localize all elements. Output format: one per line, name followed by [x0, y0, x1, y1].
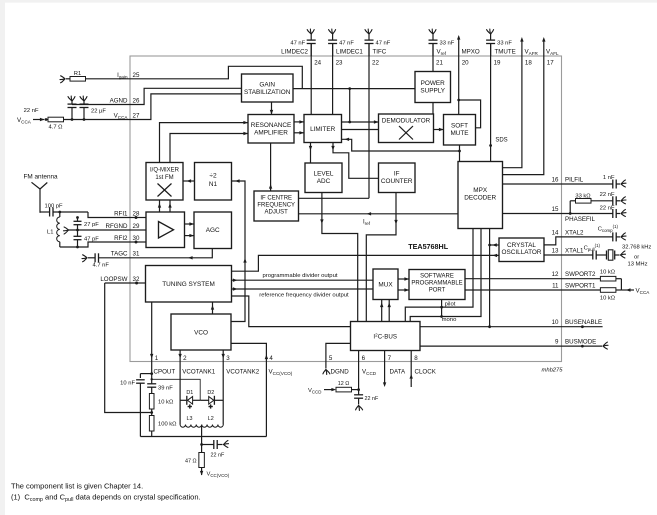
pin 23 LIMDEC1 label — [336, 49, 364, 67]
svg-text:9: 9 — [555, 339, 559, 346]
wire MPXO pin20 net — [457, 37, 460, 115]
svg-text:VCO: VCO — [194, 330, 208, 337]
svg-text:TUNING SYSTEM: TUNING SYSTEM — [162, 281, 215, 288]
resistor 12 Ohm VCCD — [336, 381, 359, 392]
block AGC — [194, 212, 232, 249]
wire tuning system to CPOUT pin1 — [150, 302, 153, 362]
wire crystal oscillator XTAL1 to pin13 — [544, 254, 562, 256]
svg-text:PILFIL: PILFIL — [565, 177, 584, 184]
svg-text:AGC: AGC — [206, 227, 220, 234]
svg-text:47 Ω: 47 Ω — [185, 459, 197, 465]
wire pin24 LIMDEC2 to LIMITER — [310, 44, 312, 115]
pin 9 BUSMODE label — [555, 339, 596, 346]
wire Igain pin25 over gain stabilization to output net — [86, 66, 303, 88]
svg-text:20: 20 — [462, 60, 469, 67]
svg-text:32.768 kHz: 32.768 kHz — [622, 245, 651, 251]
label reference frequency divider output — [259, 293, 349, 299]
wire tuning system to I2C bus — [232, 296, 351, 327]
svg-text:XTAL2: XTAL2 — [565, 229, 584, 236]
resistor 47 Ohm tank — [185, 453, 204, 468]
svg-text:FM antenna: FM antenna — [24, 174, 59, 181]
svg-text:10 kΩ: 10 kΩ — [158, 400, 174, 406]
capacitor 10nF CPOUT — [120, 374, 152, 387]
wire pin29 RFGND into RF amplifier — [130, 229, 146, 231]
wire RFGND — [69, 229, 131, 232]
svg-text:16: 16 — [552, 177, 559, 184]
wire software port to SWPORT1 pin11 — [465, 289, 562, 291]
wire I2C bus to DATA pin7 — [384, 351, 386, 362]
svg-text:SOFT: SOFT — [451, 123, 468, 130]
resistor 4.7 Ohm — [45, 117, 131, 130]
pin 16 PILFIL label — [552, 177, 584, 184]
block VCO — [171, 314, 231, 350]
wire MPX decoder to PHASEFIL pin15 — [503, 213, 562, 215]
svg-text:SDS: SDS — [495, 138, 507, 144]
block DEMODULATOR — [379, 114, 434, 143]
svg-text:FREQUENCY: FREQUENCY — [257, 203, 295, 209]
svg-text:The component list is given Ch: The component list is given Chapter 14. — [11, 482, 143, 491]
capacitor 47pF — [74, 230, 100, 247]
capacitor 47nF at LIMDEC2 — [290, 29, 315, 56]
svg-text:1st FM: 1st FM — [155, 175, 173, 181]
ground at BUSMODE — [562, 342, 609, 349]
block TUNING SYSTEM — [146, 266, 232, 303]
svg-text:SUPPLY: SUPPLY — [420, 87, 445, 94]
svg-text:32: 32 — [133, 276, 140, 283]
svg-text:13 MHz: 13 MHz — [628, 262, 648, 268]
svg-text:mono: mono — [442, 317, 457, 323]
wire tap to limiter-demodulator net — [348, 89, 351, 124]
pin 22 TIFC label — [372, 49, 387, 67]
node antenna to RFI1 — [58, 211, 130, 218]
resistor 10k SWPORT2 — [562, 270, 622, 282]
wire crystal oscillator reference to tuning system — [232, 254, 500, 272]
svg-text:10 nF: 10 nF — [120, 381, 135, 387]
svg-text:6: 6 — [362, 355, 366, 362]
wire MPX decoder pilot to I2C bus — [405, 229, 473, 322]
capacitor 33nF at Vref — [429, 29, 455, 56]
svg-text:LIMDEC2: LIMDEC2 — [281, 49, 308, 56]
wire resonance amplifier to limiter lower — [294, 131, 304, 134]
pin 31 TAGC label — [111, 251, 140, 258]
wire MPX decoder to crystal oscillator XTAL2 net — [544, 237, 562, 245]
wire pin22 TIFC to IF centre adjust output — [368, 44, 370, 199]
pin 1 CPOUT label — [154, 355, 176, 376]
svg-text:24: 24 — [314, 60, 321, 67]
block POWER SUPPLY U-PS — [415, 72, 451, 103]
supply VCCVCO arrow down — [200, 468, 230, 478]
junction PHASEFIL — [569, 212, 572, 215]
varactor D2 — [200, 390, 223, 409]
label mono — [442, 317, 457, 323]
svg-text:TEA5768HL: TEA5768HL — [408, 242, 449, 251]
wire CPOUT pin stub — [150, 362, 153, 384]
capacitor 22nF VCCD — [354, 395, 379, 411]
pin 7 DATA label — [388, 355, 406, 376]
ground RFGND — [64, 227, 69, 234]
wire pin21 Vref to POWER SUPPLY — [432, 44, 434, 72]
svg-text:47 nF: 47 nF — [376, 41, 391, 47]
capacitor 22nF upper PHASEFIL — [600, 192, 626, 206]
supply VCCD left — [308, 388, 336, 395]
capacitor 39nF CPOUT — [147, 384, 173, 394]
pin 14 XTAL2 label — [552, 229, 584, 236]
svg-text:LOOPSW: LOOPSW — [100, 276, 127, 283]
svg-text:or: or — [634, 255, 639, 261]
svg-text:DATA: DATA — [390, 369, 406, 376]
svg-text:DECODER: DECODER — [464, 194, 496, 201]
pin 20 MPXO label — [462, 49, 480, 67]
svg-text:PROGRAMMABLE: PROGRAMMABLE — [411, 281, 462, 287]
capacitor 22nF tank — [202, 440, 229, 459]
svg-text:Iref: Iref — [363, 220, 371, 227]
wire pin23 LIMDEC1 to LIMITER — [332, 44, 334, 115]
pin 26 AGND label — [110, 97, 140, 104]
svg-text:4.7 nF: 4.7 nF — [93, 263, 110, 269]
capacitor 100pF antenna — [40, 204, 88, 217]
inductor L1 — [47, 212, 60, 247]
svg-text:IF CENTRE: IF CENTRE — [260, 196, 292, 202]
svg-text:22 nF: 22 nF — [211, 453, 225, 459]
pin 17 VAFL label — [546, 49, 559, 67]
svg-text:PHASEFIL: PHASEFIL — [565, 216, 595, 223]
svg-text:mhb275: mhb275 — [542, 368, 564, 374]
svg-text:12: 12 — [552, 271, 559, 278]
wire LOOPSW pin32 to tuning system — [130, 282, 146, 285]
svg-text:OSCILLATOR: OSCILLATOR — [502, 249, 542, 256]
svg-text:BUSMODE: BUSMODE — [565, 339, 596, 346]
wire I2C bus to BUSMODE pin9 — [420, 345, 562, 347]
svg-text:10 kΩ: 10 kΩ — [600, 296, 616, 302]
wire MPX decoder to I2C bus clock net — [489, 229, 491, 327]
svg-text:STABILIZATION: STABILIZATION — [244, 89, 291, 96]
block SOFT MUTE — [444, 115, 476, 146]
wire VCCD pin stub — [357, 362, 360, 395]
FM antenna — [24, 174, 59, 213]
pin 4 VCCVCO label — [269, 355, 293, 376]
varactor D1 — [180, 390, 200, 409]
svg-text:DGND: DGND — [331, 369, 350, 376]
pin 29 RFGND label — [106, 223, 140, 230]
svg-text:ADC: ADC — [317, 178, 331, 185]
svg-text:100 pF: 100 pF — [45, 204, 64, 210]
block RESONANCE AMPLIFIER — [248, 115, 294, 144]
wire MPX decoder to PILFIL pin16 — [503, 183, 562, 185]
wire LOOPSW to loop filter — [105, 283, 152, 413]
wire GAIN STABILIZATION to POWER SUPPLY — [293, 88, 415, 90]
svg-text:DEMODULATOR: DEMODULATOR — [382, 118, 431, 125]
svg-text:ADJUST: ADJUST — [265, 210, 289, 216]
svg-text:11: 11 — [552, 283, 559, 290]
wire level ADC to I2C bus — [320, 193, 358, 322]
svg-text:TIFC: TIFC — [373, 49, 387, 56]
supply VCCA left with arrow — [17, 117, 47, 125]
wire I2C bus to MUX right — [388, 300, 391, 322]
svg-text:pilot: pilot — [445, 302, 456, 308]
svg-text:R1: R1 — [74, 71, 81, 77]
wire VCO to pin2 VCOTANK1 — [178, 350, 181, 362]
wire MPX decoder to VAPR pin18 — [503, 37, 524, 168]
svg-text:39 nF: 39 nF — [158, 386, 173, 392]
label pilot — [445, 302, 456, 308]
wire mixer Q output to resonance amplifier — [170, 132, 248, 163]
svg-text:CLOCK: CLOCK — [415, 369, 437, 376]
wire tank bottom to RFI2 — [60, 242, 130, 248]
block LEVEL ADC — [305, 163, 342, 193]
svg-text:D1: D1 — [186, 390, 193, 396]
block IQ-MIXER 1st FM U-MIX — [146, 163, 183, 201]
wire pin2 tank — [179, 362, 181, 425]
resistor 100k loop filter — [149, 416, 177, 437]
svg-text:÷2: ÷2 — [209, 173, 217, 180]
pin 6 VCCD label — [362, 355, 377, 376]
svg-text:TAGC: TAGC — [111, 251, 128, 258]
svg-text:30: 30 — [133, 235, 140, 242]
svg-text:TMUTE: TMUTE — [495, 49, 516, 56]
svg-text:D2: D2 — [207, 390, 214, 396]
wire MPXO branch to soft mute input — [459, 100, 481, 128]
wire limiter to IF counter — [331, 143, 378, 179]
wire software port to SWPORT2 pin12 — [465, 278, 562, 280]
label mhb275 — [542, 368, 564, 374]
wire RF amplifier to IQ mixer Q — [168, 200, 171, 212]
wire soft mute feedback to limiter — [342, 138, 460, 151]
junction gain-stab net to limiter output — [348, 87, 351, 90]
svg-text:18: 18 — [525, 60, 532, 67]
wire IF centre adjust to TIFC riser — [299, 197, 370, 199]
wire POWER SUPPLY to DEMODULATOR — [432, 103, 434, 115]
capacitor 4.7nF at TAGC — [88, 253, 130, 268]
wire MUX to software programmable port lower — [398, 288, 409, 291]
wire VCO to pin3 VCOTANK2 — [222, 350, 225, 362]
svg-text:12 Ω: 12 Ω — [338, 381, 350, 387]
ground DGND — [323, 362, 330, 375]
svg-text:I2C-BUS: I2C-BUS — [373, 333, 397, 341]
svg-text:47 nF: 47 nF — [339, 41, 354, 47]
pin 27 VCCA label — [114, 112, 140, 120]
svg-text:POWER: POWER — [421, 80, 446, 87]
svg-text:17: 17 — [547, 60, 554, 67]
pin 15 PHASEFIL label — [552, 206, 596, 223]
svg-text:22: 22 — [372, 60, 379, 67]
wire AGND pin26 to GAIN STABILIZATION — [130, 88, 241, 104]
resistor 33k PHASEFIL — [570, 194, 613, 214]
svg-text:MUTE: MUTE — [450, 130, 468, 137]
resistor 10k loop filter — [149, 394, 174, 416]
svg-text:22 nF: 22 nF — [24, 108, 39, 114]
pin 24 LIMDEC2 label — [281, 49, 321, 67]
pin 32 LOOPSW label — [100, 276, 140, 283]
svg-text:27 pF: 27 pF — [84, 222, 99, 228]
svg-text:2: 2 — [183, 355, 187, 362]
wire I2C bus to VCCD pin6 — [358, 351, 360, 362]
wire I2C bus to MUX left — [380, 300, 383, 322]
capacitor Ccomp at XTAL2 — [562, 224, 627, 242]
svg-text:22 nF: 22 nF — [600, 192, 615, 198]
wire limiter to demodulator lower — [342, 129, 379, 131]
inductor L3 — [180, 416, 202, 427]
supply VCCA right — [621, 279, 650, 295]
svg-text:47 pF: 47 pF — [84, 237, 99, 243]
wire I2C bus to BUSENABLE pin10 — [420, 326, 562, 328]
wire MPX decoder to VAFL pin17 — [503, 37, 546, 175]
pin 3 VCOTANK2 label — [226, 355, 260, 376]
svg-text:L1: L1 — [47, 230, 53, 236]
svg-text:IF: IF — [394, 171, 400, 178]
block I2C-BUS interface — [351, 322, 421, 351]
svg-text:L3: L3 — [187, 416, 193, 422]
wire CLOCK with arrow — [410, 362, 413, 388]
wire loop filter bottom rail — [140, 436, 266, 438]
capacitor 27pF — [74, 216, 100, 230]
capacitor Cpull at XTAL1 — [562, 243, 604, 260]
svg-text:COUNTER: COUNTER — [381, 178, 413, 185]
svg-text:LEVEL: LEVEL — [314, 171, 334, 178]
wire MUX to software programmable port upper — [398, 277, 409, 280]
wire crystal oscillator to clock net — [488, 243, 499, 246]
pin 12 SWPORT2 label — [552, 271, 596, 278]
wire tuning system programmable divider output to MUX — [232, 279, 374, 282]
resistor 10k SWPORT1 — [562, 288, 622, 302]
note component list — [11, 482, 143, 491]
svg-text:VCOTANK1: VCOTANK1 — [182, 369, 215, 376]
wire pin30 RFI2 into RF amplifier — [130, 241, 146, 244]
wire pin4 to bottom rail — [265, 362, 267, 437]
svg-text:14: 14 — [552, 229, 559, 236]
svg-text:5: 5 — [329, 355, 333, 362]
pin 13 XTAL1 label — [552, 248, 584, 255]
svg-text:LIMITER: LIMITER — [310, 126, 336, 133]
wire AGC to TAGC pin31 — [130, 249, 212, 260]
block MPX DECODER — [458, 162, 503, 229]
svg-text:L2: L2 — [208, 416, 214, 422]
wire pin3 tank — [222, 362, 224, 425]
wire limiter to level ADC — [309, 143, 312, 164]
svg-text:8: 8 — [414, 355, 418, 362]
svg-text:VCCD: VCCD — [308, 388, 321, 395]
wire DATA with arrow — [383, 362, 386, 388]
wire VCO to tuning system — [211, 302, 214, 314]
svg-text:100 kΩ: 100 kΩ — [158, 422, 177, 428]
block LIMITER — [304, 115, 342, 143]
svg-text:3: 3 — [226, 355, 230, 362]
svg-text:22 nF: 22 nF — [600, 206, 615, 212]
svg-text:22 nF: 22 nF — [365, 396, 379, 402]
wire resonance amplifier to limiter upper — [294, 120, 304, 123]
wire resonance amplifier to IF centre frequency adjust — [269, 143, 272, 191]
svg-text:4: 4 — [269, 355, 273, 362]
pin 19 TMUTE label — [494, 49, 516, 67]
svg-text:10 kΩ: 10 kΩ — [600, 270, 616, 276]
svg-text:CPOUT: CPOUT — [154, 369, 176, 376]
wire I2C bus to DGND pin5 — [326, 343, 351, 361]
svg-text:21: 21 — [436, 60, 443, 67]
wire demodulator to soft mute — [434, 128, 444, 131]
pin 21 Vref label — [436, 49, 447, 67]
svg-text:13: 13 — [552, 248, 559, 255]
ground at R1 — [60, 76, 65, 83]
svg-text:reference frequency divider ou: reference frequency divider output — [259, 293, 349, 299]
svg-text:SOFTWARE: SOFTWARE — [420, 274, 454, 280]
label Iref — [363, 220, 371, 227]
block GAIN STABILIZATION — [242, 74, 294, 102]
junction pilot to software port — [440, 300, 443, 317]
capacitor 22uF at VCCA — [80, 96, 107, 121]
svg-text:LIMDEC1: LIMDEC1 — [336, 49, 363, 56]
svg-text:1 nF: 1 nF — [603, 175, 615, 181]
block RF input amplifier — [146, 212, 185, 248]
svg-text:23: 23 — [336, 60, 343, 67]
pin 11 SWPORT1 label — [552, 283, 596, 290]
junction clock net to BUSENABLE — [488, 325, 491, 328]
wire MPX decoder mono to I2C bus — [410, 229, 481, 322]
svg-text:19: 19 — [494, 60, 501, 67]
svg-text:25: 25 — [133, 72, 140, 79]
wire tuning system reference frequency divider output to MUX — [232, 287, 374, 290]
IC boundary TEA5768HL package outline — [130, 56, 562, 362]
label SDS — [495, 138, 507, 144]
wire IF counter to I2C bus — [366, 193, 397, 322]
svg-text:AMPLIFIER: AMPLIFIER — [254, 129, 288, 136]
capacitor 22nF at VCCA — [24, 96, 77, 121]
block MUX — [373, 269, 398, 300]
wire limiter to demodulator upper — [342, 120, 379, 123]
wire MPXO arrow — [457, 35, 460, 40]
svg-text:N1: N1 — [209, 181, 218, 188]
block CRYSTAL OSCILLATOR — [499, 238, 544, 262]
svg-text:27: 27 — [133, 112, 140, 119]
svg-text:33 kΩ: 33 kΩ — [575, 194, 591, 200]
wire VCO to divider N1 — [231, 179, 247, 321]
svg-text:BUSENABLE: BUSENABLE — [565, 319, 602, 326]
svg-text:29: 29 — [133, 223, 140, 230]
wire CPOUT tune voltage to varactor midpoint — [151, 378, 201, 400]
wire RF amplifier to AGC upper — [185, 222, 195, 225]
svg-text:XTAL1: XTAL1 — [565, 248, 584, 255]
wire AGND to decoupling ground — [72, 104, 130, 106]
label programmable divider output — [263, 273, 338, 279]
pin 8 CLOCK label — [414, 355, 436, 376]
svg-text:CRYSTAL: CRYSTAL — [507, 242, 536, 249]
block divider N1 — [195, 163, 232, 201]
wire BUSENABLE external — [562, 325, 603, 328]
svg-text:RESONANCE: RESONANCE — [251, 122, 291, 129]
svg-text:33 nF: 33 nF — [440, 41, 455, 47]
resistor R1 — [66, 71, 86, 81]
svg-text:22 µF: 22 µF — [91, 109, 106, 115]
pin 25 Igain label — [117, 72, 140, 80]
pin 10 BUSENABLE label — [552, 319, 603, 326]
svg-text:VCOTANK2: VCOTANK2 — [226, 369, 259, 376]
wire Iref MPX decoder to IF centre adjust — [299, 212, 459, 215]
pin 2 VCOTANK1 label — [182, 355, 215, 376]
svg-text:AGND: AGND — [110, 97, 128, 104]
capacitor 47nF at LIMDEC1 — [328, 29, 354, 56]
capacitor 22nF lower PHASEFIL — [562, 206, 627, 219]
svg-text:4.7 Ω: 4.7 Ω — [48, 125, 63, 131]
svg-text:SWPORT2: SWPORT2 — [565, 271, 596, 278]
capacitor 33nF at TMUTE — [486, 29, 512, 56]
svg-text:MUX: MUX — [378, 282, 393, 289]
pin 18 VAFR label — [525, 49, 539, 67]
svg-text:PORT: PORT — [429, 288, 446, 294]
wire tank centre tap — [200, 426, 203, 453]
inductor L2 — [202, 416, 224, 427]
ground at TAGC filter — [82, 255, 87, 262]
wire RF amplifier to AGC lower — [185, 234, 195, 237]
svg-text:RFI1: RFI1 — [114, 210, 128, 217]
pin 28 RFI1 label — [114, 210, 140, 217]
